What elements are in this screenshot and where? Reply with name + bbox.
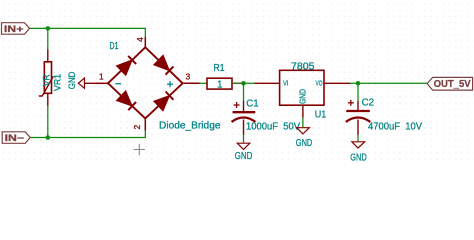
resistor R1 (207, 78, 244, 89)
svg-text:VR1: VR1 (53, 74, 63, 91)
varistor VR1 (39, 50, 54, 106)
D1 pin name minus (116, 83, 122, 85)
diode top-left (anode L, cathode T) (117, 60, 133, 75)
svg-text:1: 1 (217, 79, 223, 90)
pin 1 (left) (96, 82, 108, 84)
svg-text:R1: R1 (214, 63, 225, 74)
wire VR1 bottom branch (47, 106, 49, 138)
svg-text:GND: GND (296, 138, 313, 149)
wire C1 to GND (243, 134, 245, 143)
svg-text:GND: GND (298, 89, 307, 104)
diode bottom-left (anode L, cathode B) (117, 91, 133, 106)
wire bridge to R1 (200, 82, 208, 84)
wire C2 top branch (357, 83, 359, 101)
diode top-right (anode T, cathode R) (154, 55, 170, 70)
regulator U1 7805 (255, 70, 351, 117)
svg-text:4: 4 (135, 37, 145, 42)
svg-text:VO: VO (316, 79, 323, 88)
ground below U1 (296, 128, 313, 149)
hierarchical label OUT_5V (427, 77, 473, 90)
svg-text:IN+: IN+ (4, 24, 24, 34)
svg-text:2: 2 (132, 125, 142, 130)
wire U1 GND pin to GND (302, 117, 304, 127)
hierarchical label IN+ (2, 23, 30, 35)
ground below C1 (235, 143, 253, 162)
pin 4 (top) (144, 37, 146, 47)
wire VR1 top branch (47, 28, 49, 50)
pin 3 (right) (183, 82, 200, 84)
pin 2 (bottom) (144, 119, 146, 131)
svg-text:OUT_5V: OUT_5V (434, 79, 471, 90)
svg-text:3: 3 (186, 72, 191, 82)
hierarchical label IN- (2, 132, 30, 144)
svg-text:1000uF 50V: 1000uF 50V (246, 121, 300, 132)
wire U1 output to OUT_5V (350, 82, 428, 84)
wire IN+ top rail (30, 28, 146, 37)
node junction VO/C2 (356, 81, 361, 86)
svg-text:GND: GND (67, 71, 77, 89)
svg-text:U1: U1 (315, 110, 327, 121)
node junction R1/C1 (241, 81, 246, 86)
wire C1 top branch (243, 83, 245, 101)
node junction IN-/VR1 (46, 135, 51, 140)
svg-text:GND: GND (350, 153, 367, 164)
ground below C2 (350, 142, 367, 164)
wire C2 to GND (357, 134, 359, 141)
svg-text:D1: D1 (110, 41, 119, 52)
diode bridge D1 (96, 37, 200, 131)
capacitor C1 (232, 101, 256, 135)
wire IN- bottom rail (30, 130, 146, 137)
diode bottom-right (anode B, cathode R) (154, 96, 170, 111)
svg-text:VI: VI (283, 79, 288, 88)
capacitor C2 (346, 100, 371, 135)
svg-text:1: 1 (99, 72, 104, 82)
diamond body (108, 47, 183, 118)
svg-text:C2: C2 (362, 98, 375, 109)
node junction IN+/VR1 (46, 26, 51, 31)
svg-text:Diode_Bridge: Diode_Bridge (159, 121, 221, 132)
sheet anchor crosshair (134, 144, 145, 155)
svg-text:C1: C1 (246, 99, 259, 110)
svg-text:GND: GND (235, 151, 253, 162)
svg-text:IN−: IN− (5, 133, 25, 143)
svg-text:4700uF 10V: 4700uF 10V (368, 121, 422, 132)
svg-text:7805: 7805 (291, 61, 315, 72)
D1 pin name plus (167, 81, 173, 87)
ground (bridge negative, pointing left) (67, 71, 96, 89)
wire R1 to U1 (232, 82, 255, 84)
svg-text:VR: VR (41, 74, 51, 86)
